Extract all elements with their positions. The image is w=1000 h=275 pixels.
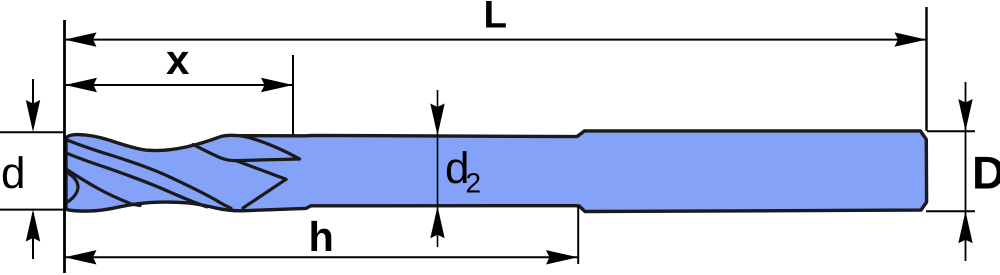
svg-text:L: L (484, 0, 508, 37)
D arrow stem (continuous) (965, 82, 967, 261)
h dimension line (65, 256, 578, 258)
L dimension line (66, 39, 926, 41)
svg-text:d: d (1, 149, 25, 198)
small lower-left curve (66, 169, 140, 206)
line B (236, 159, 300, 161)
D extension lines (927, 130, 975, 132)
arrowheads (26, 32, 973, 264)
x left / right (65, 78, 97, 92)
flute spiral S1c lower parallel (66, 153, 207, 207)
d2 dimension line (437, 90, 439, 247)
L left / right (65, 32, 97, 46)
h right extension line (577, 206, 579, 264)
line C (236, 161, 286, 180)
x extension line (292, 55, 294, 135)
left main extension line (63, 20, 66, 273)
svg-text:D: D (972, 147, 1000, 199)
d top (down) / bottom (up) (26, 100, 40, 132)
svg-text:2: 2 (466, 168, 482, 199)
D top (down) / bottom (up) (958, 99, 972, 131)
d extension lines (0, 131, 65, 133)
flute spiral S1a from top-left corner (67, 140, 231, 208)
x dimension line (66, 84, 293, 86)
flute curve N1 (notch top edge) (240, 136, 300, 159)
tool body silhouette (cutter + neck + shank) (66, 131, 927, 212)
right extension line (925, 7, 927, 131)
end-tooth arc (67, 172, 79, 202)
h left / right (65, 250, 97, 264)
d2 top (down) / bottom (up) (430, 104, 444, 136)
flute branch S1b to vertex (193, 145, 236, 161)
svg-text:x: x (166, 36, 190, 83)
d arrow stems (32, 79, 34, 128)
line D (243, 179, 286, 208)
svg-text:h: h (309, 213, 334, 260)
